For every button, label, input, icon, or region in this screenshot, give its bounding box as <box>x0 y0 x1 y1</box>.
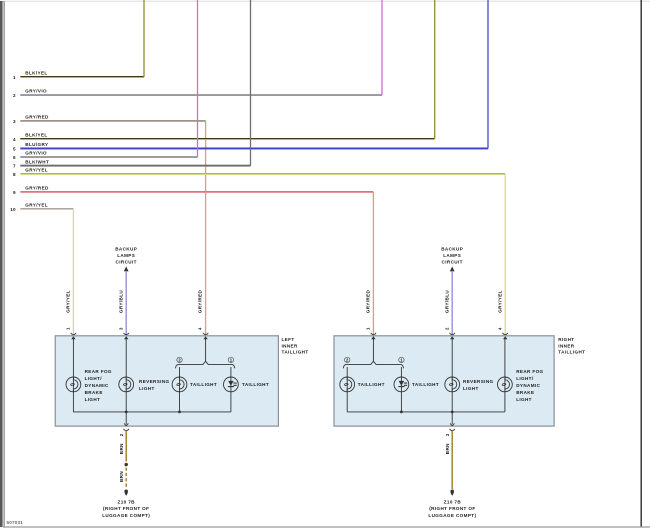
left box pin 2 exit arc <box>124 429 129 431</box>
frame left double bar <box>0 1 4 527</box>
left box pin 1 connector (GRY/YEL) <box>66 290 77 339</box>
svg-text:GRY/VIO: GRY/VIO <box>25 151 47 156</box>
svg-text:3: 3 <box>13 119 16 124</box>
svg-text:BRN: BRN <box>119 471 124 482</box>
svg-text:RIGHT: RIGHT <box>558 337 574 342</box>
ground splice Z10 right <box>450 490 454 496</box>
svg-text:LUGGAGE COMPT): LUGGAGE COMPT) <box>428 513 476 518</box>
right taillight LED feed <box>400 367 402 377</box>
right box pin 2 connector (GRY/BLU) <box>444 290 455 340</box>
svg-text:CIRCUIT: CIRCUIT <box>442 259 463 264</box>
wire 1 BLK/YEL (pin 1) <box>13 0 144 80</box>
right taillight bulb feed <box>346 367 348 377</box>
label left inner taillight <box>282 337 309 355</box>
left taillight bulb feed <box>179 367 181 377</box>
left rear fog feed wire <box>72 339 74 377</box>
left inner taillight box <box>55 336 278 426</box>
left pin4 feed wire to brace <box>205 339 207 362</box>
svg-text:DYNAMIC: DYNAMIC <box>85 383 109 388</box>
svg-text:5: 5 <box>13 146 16 151</box>
svg-text:TAILLIGHT: TAILLIGHT <box>412 382 439 387</box>
svg-text:3: 3 <box>118 327 123 330</box>
right box ground exit wire <box>451 412 453 424</box>
svg-text:GRY/RED: GRY/RED <box>25 115 49 120</box>
svg-text:BRAKE: BRAKE <box>85 390 103 395</box>
junction dot left bus B <box>178 411 181 414</box>
svg-text:GRY/RED: GRY/RED <box>25 186 49 191</box>
circled 1 (left) <box>228 357 233 362</box>
wire BRN left upper <box>125 430 127 461</box>
svg-text:LUGGAGE COMPT): LUGGAGE COMPT) <box>102 513 150 518</box>
svg-text:GRY/YEL: GRY/YEL <box>25 168 48 173</box>
svg-text:GRY/YEL: GRY/YEL <box>497 290 502 313</box>
svg-text:BLU/GRY: BLU/GRY <box>25 142 48 147</box>
right pin1 feed wire to brace <box>372 339 374 362</box>
left box ground exit wire <box>125 412 127 424</box>
svg-text:6: 6 <box>13 155 16 160</box>
label rear fog light (left) <box>85 369 112 402</box>
wire BRN right <box>451 430 453 489</box>
svg-text:BRN: BRN <box>119 443 124 454</box>
svg-text:GRY/YEL: GRY/YEL <box>25 203 48 208</box>
right box pin 1 connector (GRY/RED) <box>366 289 377 339</box>
svg-text:LIGHT: LIGHT <box>85 397 101 402</box>
frame top border line <box>0 0 650 2</box>
wire GRY/BLU to backup lamps circuit (left, pin 3) <box>115 247 137 336</box>
svg-text:LIGHT/: LIGHT/ <box>516 376 534 381</box>
circled 2 (right) <box>345 357 350 362</box>
svg-text:BLK/YEL: BLK/YEL <box>25 133 47 138</box>
svg-text:TAILLIGHT: TAILLIGHT <box>190 382 217 387</box>
svg-text:2: 2 <box>119 433 124 436</box>
left taillight LED feed <box>230 367 232 377</box>
LED taillight (right) <box>394 377 409 392</box>
svg-text:REVERSING: REVERSING <box>463 379 494 384</box>
left box pin 3 connector (GRY/BLU) <box>118 290 129 340</box>
svg-text:REVERSING: REVERSING <box>139 379 170 384</box>
svg-text:7: 7 <box>13 164 16 169</box>
svg-text:BLK/YEL: BLK/YEL <box>25 71 47 76</box>
right box pin 4 connector (GRY/YEL) <box>497 290 508 339</box>
frame bottom border line <box>3 526 650 528</box>
left brace split <box>176 361 235 368</box>
svg-text:TAILLIGHT: TAILLIGHT <box>358 382 385 387</box>
bulb taillight (left) <box>172 377 187 392</box>
svg-text:GRY/BLU: GRY/BLU <box>444 290 449 313</box>
right brace split <box>343 361 403 368</box>
right rear fog feed wire <box>504 339 506 377</box>
svg-text:LIGHT: LIGHT <box>139 386 155 391</box>
svg-text:BRAKE: BRAKE <box>516 390 534 395</box>
svg-text:9: 9 <box>13 190 16 195</box>
svg-text:BACKUP: BACKUP <box>441 247 463 252</box>
svg-text:2: 2 <box>444 327 449 330</box>
svg-text:DYNAMIC: DYNAMIC <box>516 383 540 388</box>
label rear fog light (right) <box>516 369 543 402</box>
right box pin 3 exit arrow <box>450 423 454 425</box>
wire 2 GRY/VIO (pin 2) <box>13 0 382 98</box>
wire GRY/BLU to backup lamps circuit (right, pin 2) <box>441 247 463 336</box>
junction dot right bus A <box>400 411 403 414</box>
right ground bus wire <box>347 392 505 412</box>
svg-text:1: 1 <box>13 75 16 80</box>
wire 6 GRY/VIO (pin 6) <box>13 0 197 160</box>
svg-text:BLK/WHT: BLK/WHT <box>25 159 49 164</box>
right inner taillight box <box>334 336 554 426</box>
wire 4 BLK/YEL (pin 4) <box>13 0 435 142</box>
splice dot left <box>125 463 128 466</box>
label reversing light (left) <box>139 379 170 391</box>
svg-text:GRY/RED: GRY/RED <box>198 289 203 313</box>
svg-text:INNER: INNER <box>282 343 298 348</box>
svg-text:TAILLIGHT: TAILLIGHT <box>242 382 269 387</box>
left reversing feed wire <box>125 339 127 377</box>
wire 10 GRY/YEL (pin 10) <box>10 203 73 336</box>
svg-text:TAILLIGHT: TAILLIGHT <box>282 350 309 355</box>
LED taillight (left) <box>224 377 239 392</box>
wire 3 GRY/RED (pin 3) <box>13 115 206 336</box>
svg-text:GRY/YEL: GRY/YEL <box>66 290 71 313</box>
frame right vertical line <box>640 0 642 527</box>
wire 7 BLK/WHT (pin 7) <box>13 0 250 169</box>
svg-text:CIRCUIT: CIRCUIT <box>116 259 137 264</box>
wire BRN left lower (dashed) <box>125 468 127 488</box>
circled 1 (right) <box>399 357 404 362</box>
svg-text:REAR FOG: REAR FOG <box>516 369 543 374</box>
bulb reversing light (right) <box>445 377 460 392</box>
label right inner taillight <box>558 337 585 355</box>
junction dot left bus A <box>125 411 128 414</box>
junction dot right bus B <box>451 411 454 414</box>
wire 8 GRY/YEL (pin 8) <box>13 168 505 336</box>
left box pin 4 connector (GRY/RED) <box>198 289 209 339</box>
left box pin 2 exit arrow <box>124 423 128 425</box>
svg-text:4: 4 <box>13 137 16 142</box>
bulb rear fog/dynamic brake light (right) <box>498 377 513 392</box>
svg-text:(RIGHT FRONT OF: (RIGHT FRONT OF <box>429 506 475 511</box>
bulb rear fog/dynamic brake light (left) <box>66 377 81 392</box>
svg-text:LAMPS: LAMPS <box>443 253 461 258</box>
svg-text:LIGHT/: LIGHT/ <box>85 376 103 381</box>
svg-text:REAR FOG: REAR FOG <box>85 369 112 374</box>
label Z10 7B left <box>102 499 150 518</box>
right reversing feed wire <box>451 339 453 377</box>
svg-text:LEFT: LEFT <box>282 337 295 342</box>
svg-text:1: 1 <box>366 327 371 330</box>
svg-text:BACKUP: BACKUP <box>115 247 137 252</box>
svg-text:Z10 7B: Z10 7B <box>444 499 462 504</box>
label Z10 7B right <box>428 499 476 518</box>
svg-text:3: 3 <box>445 433 450 436</box>
svg-text:LIGHT: LIGHT <box>516 397 532 402</box>
svg-text:2: 2 <box>13 93 16 98</box>
svg-text:TAILLIGHT: TAILLIGHT <box>558 350 585 355</box>
bulb taillight (right) <box>340 377 355 392</box>
bulb reversing light (left) <box>119 377 134 392</box>
svg-text:LAMPS: LAMPS <box>117 253 135 258</box>
svg-text:GRY/BLU: GRY/BLU <box>118 290 123 313</box>
svg-text:BRN: BRN <box>445 443 450 454</box>
svg-text:8: 8 <box>13 172 16 177</box>
svg-text:10: 10 <box>10 207 16 212</box>
right box pin 3 exit arc <box>450 429 455 431</box>
svg-text:4: 4 <box>497 327 502 330</box>
svg-text:Z10 7B: Z10 7B <box>118 499 136 504</box>
wire 9 GRY/RED (pin 9) <box>13 186 373 336</box>
svg-text:4: 4 <box>198 327 203 330</box>
wire 5 BLU/GRY (pin 5) <box>13 0 488 151</box>
svg-text:GRY/RED: GRY/RED <box>366 289 371 313</box>
ground splice Z10 left <box>124 490 128 496</box>
svg-text:1: 1 <box>66 327 71 330</box>
svg-text:(RIGHT FRONT OF: (RIGHT FRONT OF <box>103 506 149 511</box>
circled 2 (left) <box>177 357 182 362</box>
left ground bus wire <box>73 392 231 412</box>
svg-text:LIGHT: LIGHT <box>463 386 479 391</box>
svg-text:INNER: INNER <box>558 343 574 348</box>
svg-text:GRY/VIO: GRY/VIO <box>25 89 47 94</box>
svg-text:507031: 507031 <box>7 520 24 525</box>
label reversing light (right) <box>463 379 494 391</box>
